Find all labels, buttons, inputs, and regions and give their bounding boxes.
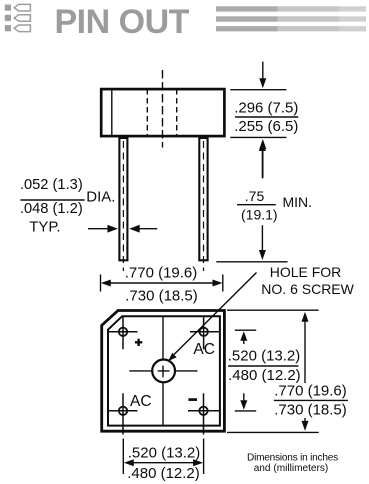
- svg-text:PIN OUT: PIN OUT: [55, 3, 190, 41]
- svg-text:.520 (13.2): .520 (13.2): [228, 347, 301, 364]
- svg-text:.770 (19.6): .770 (19.6): [125, 265, 198, 282]
- svg-text:.255 (6.5): .255 (6.5): [234, 118, 298, 135]
- svg-text:.730 (18.5): .730 (18.5): [274, 401, 347, 418]
- svg-text:(19.1): (19.1): [241, 206, 278, 222]
- svg-text:AC: AC: [130, 393, 152, 410]
- svg-text:HOLE FOR: HOLE FOR: [270, 264, 342, 280]
- svg-text:.480 (12.2): .480 (12.2): [228, 367, 301, 384]
- svg-text:AC: AC: [193, 341, 215, 358]
- svg-text:.296 (7.5): .296 (7.5): [234, 99, 298, 116]
- svg-text:.770 (19.6): .770 (19.6): [274, 382, 347, 399]
- svg-text:TYP.: TYP.: [29, 218, 60, 235]
- svg-text:.75: .75: [245, 188, 265, 204]
- svg-text:and (millimeters): and (millimeters): [254, 463, 329, 474]
- svg-text:.730 (18.5): .730 (18.5): [125, 287, 198, 304]
- svg-text:MIN.: MIN.: [283, 194, 313, 210]
- svg-text:NO. 6 SCREW: NO. 6 SCREW: [261, 281, 354, 297]
- svg-text:DIA.: DIA.: [86, 189, 115, 206]
- svg-text:.520 (13.2): .520 (13.2): [128, 445, 201, 462]
- svg-text:.052 (1.3): .052 (1.3): [20, 177, 83, 193]
- svg-text:Dimensions in inches: Dimensions in inches: [247, 452, 338, 463]
- svg-text:.048 (1.2): .048 (1.2): [20, 201, 83, 217]
- svg-text:.480 (12.2): .480 (12.2): [127, 465, 200, 482]
